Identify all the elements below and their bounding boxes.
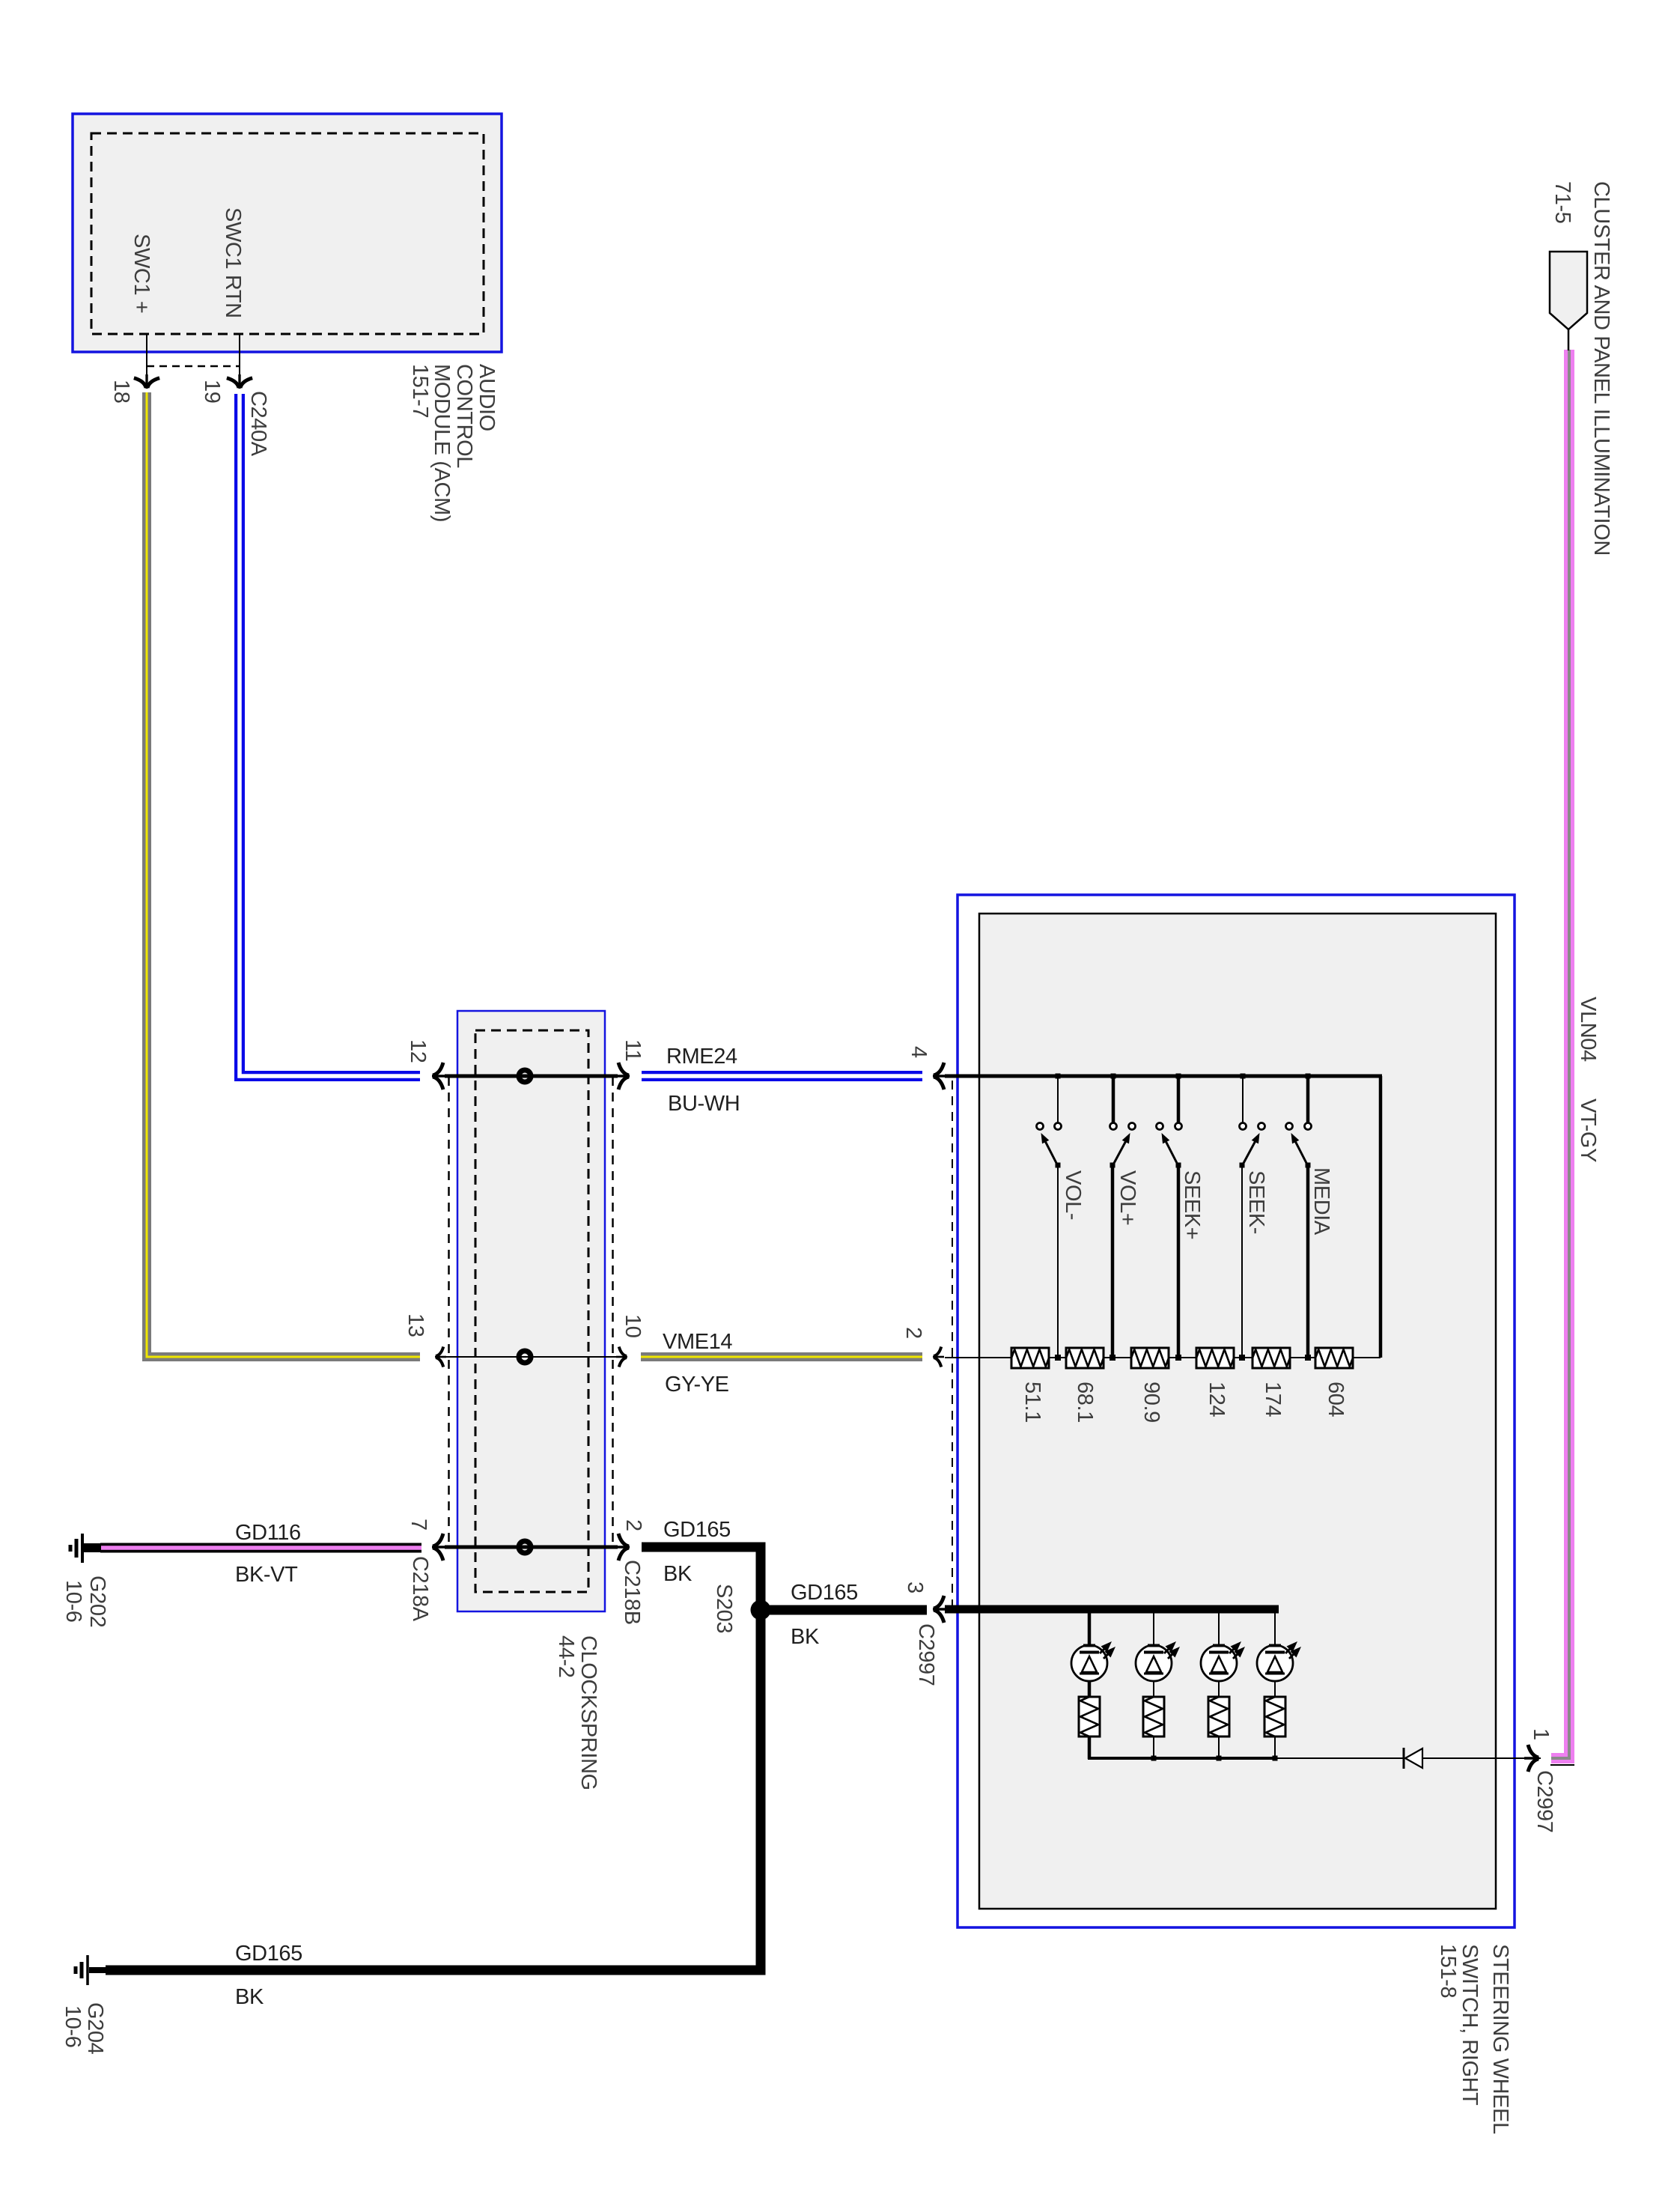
svg-text:MODULE (ACM): MODULE (ACM)	[430, 364, 454, 522]
svg-text:1: 1	[1529, 1728, 1553, 1740]
svg-text:3: 3	[903, 1581, 927, 1593]
svg-text:10-6: 10-6	[61, 1580, 85, 1622]
svg-text:51.1: 51.1	[1020, 1382, 1044, 1423]
svg-text:GY-YE: GY-YE	[665, 1373, 729, 1397]
svg-text:SWC1 RTN: SWC1 RTN	[221, 207, 245, 318]
svg-text:G204: G204	[83, 2002, 107, 2055]
svg-text:2: 2	[621, 1519, 645, 1531]
svg-text:C240A: C240A	[246, 391, 270, 457]
svg-text:90.9: 90.9	[1139, 1382, 1163, 1423]
svg-text:10: 10	[621, 1314, 645, 1337]
svg-text:S203: S203	[712, 1584, 736, 1633]
svg-text:CLOCKSPRING: CLOCKSPRING	[576, 1635, 600, 1790]
svg-text:CONTROL: CONTROL	[452, 364, 476, 468]
svg-text:VLN04: VLN04	[1576, 997, 1600, 1062]
svg-text:4: 4	[907, 1046, 931, 1058]
svg-text:C218A: C218A	[408, 1556, 432, 1622]
svg-text:C218B: C218B	[620, 1560, 644, 1625]
svg-text:STEERING WHEEL: STEERING WHEEL	[1488, 1944, 1512, 2134]
svg-text:G202: G202	[85, 1576, 109, 1627]
svg-text:MEDIA: MEDIA	[1309, 1167, 1333, 1236]
svg-text:19: 19	[200, 380, 224, 403]
svg-text:11: 11	[621, 1039, 645, 1061]
svg-text:SEEK+: SEEK+	[1180, 1170, 1204, 1239]
svg-text:GD165: GD165	[663, 1518, 731, 1542]
svg-text:SEEK-: SEEK-	[1244, 1170, 1268, 1234]
svg-text:13: 13	[404, 1313, 427, 1337]
svg-text:12: 12	[406, 1039, 430, 1063]
svg-text:C2997: C2997	[914, 1623, 938, 1686]
svg-text:2: 2	[901, 1327, 925, 1339]
svg-text:VME14: VME14	[663, 1330, 732, 1354]
svg-text:SWITCH, RIGHT: SWITCH, RIGHT	[1458, 1944, 1482, 2106]
svg-text:44-2: 44-2	[554, 1635, 578, 1677]
svg-text:SWC1 +: SWC1 +	[130, 234, 153, 313]
svg-text:604: 604	[1324, 1382, 1348, 1417]
svg-text:10-6: 10-6	[61, 2005, 85, 2047]
svg-text:RME24: RME24	[666, 1045, 737, 1069]
svg-text:BK: BK	[663, 1562, 693, 1586]
svg-text:71-5: 71-5	[1550, 181, 1574, 223]
svg-text:68.1: 68.1	[1073, 1382, 1097, 1423]
svg-text:BU-WH: BU-WH	[668, 1092, 740, 1116]
svg-text:CLUSTER AND PANEL ILLUMINATION: CLUSTER AND PANEL ILLUMINATION	[1589, 181, 1613, 556]
svg-text:C2997: C2997	[1532, 1770, 1556, 1832]
svg-text:18: 18	[109, 380, 133, 403]
svg-text:GD165: GD165	[235, 1942, 302, 1966]
svg-text:174: 174	[1261, 1382, 1285, 1417]
svg-text:GD116: GD116	[235, 1521, 301, 1545]
svg-text:124: 124	[1205, 1382, 1229, 1417]
svg-text:151-8: 151-8	[1436, 1944, 1460, 1998]
svg-text:VT-GY: VT-GY	[1576, 1099, 1600, 1162]
svg-text:151-7: 151-7	[408, 364, 432, 418]
svg-text:BK: BK	[235, 1985, 264, 2009]
svg-text:AUDIO: AUDIO	[475, 364, 499, 431]
svg-text:BK-VT: BK-VT	[235, 1563, 298, 1587]
svg-text:7: 7	[407, 1519, 430, 1531]
svg-text:BK: BK	[791, 1625, 820, 1649]
svg-text:GD165: GD165	[791, 1581, 858, 1605]
svg-text:VOL+: VOL+	[1115, 1170, 1139, 1225]
svg-text:VOL-: VOL-	[1061, 1170, 1085, 1220]
